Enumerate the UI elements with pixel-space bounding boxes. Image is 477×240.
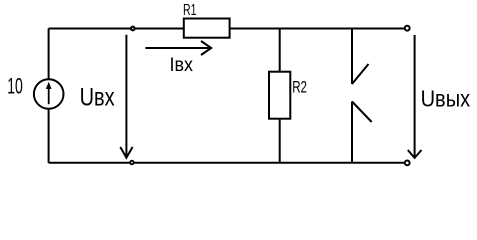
Ivx current arrow [145,47,209,49]
wire left vertical upper (source to top wire) [48,29,50,80]
Uvx arrow line (voltage arrow down) [125,35,127,157]
svg-text:10: 10 [7,74,23,99]
terminal top-right [405,26,410,31]
nonlinear element lower vertical [351,102,353,163]
resistor R1 [184,19,230,38]
wire node to R1 left [133,28,184,30]
svg-text:R1: R1 [183,2,197,19]
Uvx arrowhead [120,147,132,158]
svg-text:Uвх: Uвх [80,84,115,112]
current source arrow [48,86,50,105]
svg-text:Uвых: Uвых [421,85,471,111]
terminal bottom-right [405,161,410,166]
wire top-left horizontal (source top to node) [49,28,133,30]
nonlinear element upper diagonal [352,64,369,84]
nonlinear element lower diagonal [352,102,372,123]
wire bottom horizontal [49,162,405,164]
wire R2 top vertical [279,29,281,72]
current source I1 circle [34,79,64,109]
svg-text:R2: R2 [292,77,307,96]
nonlinear element upper vertical [351,29,353,85]
wire R1 right to output terminal [230,28,405,30]
resistor R2 [269,72,290,119]
svg-text:Iвх: Iвх [170,54,194,76]
wire R2 bottom vertical [279,119,281,163]
wire left vertical lower (source to bottom wire) [48,109,50,163]
node B (bottom junction dot) [130,161,134,165]
Uvyx arrowhead [408,150,422,158]
Uvyx arrow line [414,35,416,157]
node A (top junction dot) [131,27,135,31]
